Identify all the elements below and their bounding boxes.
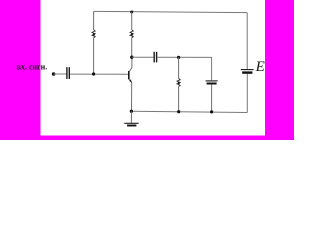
wire collector to C2 — [132, 56, 154, 58]
node base divider junction — [92, 72, 95, 75]
input terminal — [52, 72, 56, 76]
ground — [124, 111, 138, 125]
resistor R2 — [130, 12, 133, 57]
node top junction — [130, 11, 133, 14]
node C3 bottom junction — [210, 110, 213, 113]
wire C1 to base — [70, 73, 129, 75]
battery E — [241, 13, 254, 113]
transistor VT1 — [129, 57, 132, 111]
node collector junction — [130, 56, 133, 59]
wire C2 to C3 corner — [157, 57, 211, 80]
node emitter junction — [130, 110, 133, 113]
capacitor C3 — [206, 81, 218, 112]
node R3 bottom junction — [177, 110, 180, 113]
capacitor C1 — [67, 67, 69, 79]
svg-text:E: E — [255, 59, 265, 75]
capacitor C2 — [154, 52, 156, 63]
wire input to C1 — [54, 73, 67, 75]
resistor R3 — [177, 57, 180, 111]
svg-text:вх. сигн.: вх. сигн. — [17, 63, 48, 72]
resistor R1 — [92, 11, 95, 74]
wire top supply rail — [94, 11, 248, 12]
wire bottom rail — [131, 111, 247, 112]
node R3 top junction — [177, 56, 180, 59]
